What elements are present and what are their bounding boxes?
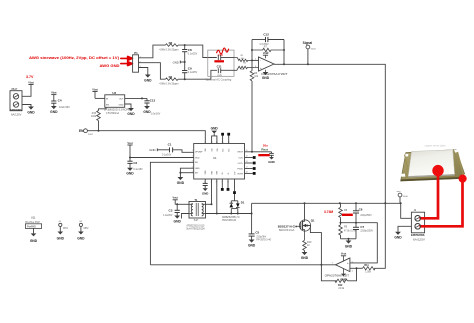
- wire U1 SW1 pin down: [211, 179, 213, 204]
- svg-text:3.7V: 3.7V: [26, 75, 34, 79]
- svg-text:MH1: MH1: [63, 228, 69, 230]
- junction: [216, 213, 218, 215]
- junction: [179, 172, 181, 174]
- svg-text:O-: O-: [228, 172, 230, 175]
- junction: [129, 157, 131, 159]
- wire divider mid rail: [341, 222, 378, 224]
- svg-text:C5: C5: [255, 231, 259, 235]
- junction: [141, 97, 143, 99]
- red scribble over C10: [217, 48, 229, 54]
- capacitor Cext (REXT): [268, 152, 274, 164]
- wire T1 left-bottom stub: [182, 214, 190, 219]
- svg-text:EN: EN: [106, 105, 109, 107]
- svg-text:C13: C13: [150, 99, 156, 103]
- terminal OUT- (square): [245, 156, 256, 159]
- svg-text:100k: 100k: [91, 116, 97, 118]
- ground port (C8/C9 mid): [173, 60, 185, 64]
- svg-text:5040: 5040: [403, 196, 409, 198]
- wire HV node corner up: [251, 203, 253, 213]
- junction: [251, 151, 253, 153]
- capacitor C11: [217, 64, 234, 77]
- capacitor C8: [182, 45, 197, 62]
- wire U3B plus to divider mid: [350, 223, 377, 263]
- svg-text:MMBZ5265B-7-F: MMBZ5265B-7-F: [222, 217, 240, 219]
- svg-text:VDD: VDD: [195, 157, 200, 159]
- capacitor C4: [51, 99, 70, 109]
- junction: [184, 61, 186, 63]
- transistor Q1 BSS127: [278, 203, 315, 240]
- capacitor C9: [182, 62, 197, 79]
- svg-text:600V/21mA: 600V/21mA: [279, 229, 295, 232]
- junction: [283, 49, 285, 51]
- module U11 (shield): [25, 216, 42, 243]
- power flag Vbat (C4): [51, 92, 57, 102]
- svg-text:3: 3: [255, 66, 256, 68]
- capacitor C10 (removed, red markup): [216, 53, 234, 63]
- ground (battery): [27, 107, 35, 115]
- wire minus input: [252, 59, 259, 61]
- wire REXT pin: [245, 151, 272, 153]
- mounting hole MH1: [57, 221, 69, 240]
- svg-text:0.1u/16V: 0.1u/16V: [162, 155, 172, 157]
- svg-text:Q1: Q1: [311, 218, 315, 222]
- svg-text:C2: C2: [133, 161, 137, 165]
- terminal HV (square) to D1: [233, 179, 236, 201]
- svg-text:PVDD: PVDD: [237, 168, 243, 170]
- svg-text:1.0u/16V: 1.0u/16V: [151, 113, 161, 116]
- svg-text:OUT+: OUT+: [238, 163, 244, 165]
- svg-text:ED555/2DS: ED555/2DS: [11, 108, 22, 112]
- svg-text:220p/3kV: 220p/3kV: [256, 236, 266, 238]
- svg-text:R11: R11: [364, 264, 369, 267]
- resistor R10: [303, 240, 312, 252]
- junction: [307, 63, 309, 65]
- svg-text:C8: C8: [188, 48, 192, 52]
- svg-text:20x: 20x: [263, 143, 268, 147]
- no-connect terminal (top pin 5): [227, 133, 230, 144]
- svg-text:C4: C4: [58, 99, 62, 103]
- wire U1 SW2 pin down: [216, 179, 218, 214]
- svg-text:C3: C3: [169, 209, 173, 213]
- svg-text:PwrPAD: PwrPAD: [27, 225, 36, 228]
- junction: [211, 203, 213, 205]
- svg-text:copper sense plate: copper sense plate: [425, 144, 447, 147]
- junction: [237, 213, 239, 215]
- svg-text:5uH: 5uH: [194, 219, 199, 222]
- svg-text:REXT: REXT: [238, 152, 244, 154]
- op-amp U3B OPA2376: [325, 258, 353, 278]
- wire HV node: [206, 213, 252, 215]
- ground (U1 GND/INT): [177, 177, 185, 185]
- svg-text:GND: GND: [173, 60, 179, 64]
- svg-text:-: -: [260, 59, 261, 63]
- junction: [339, 202, 341, 204]
- test point EN: [79, 129, 94, 136]
- svg-text:6A/125V: 6A/125V: [11, 113, 22, 116]
- svg-text:GND: GND: [195, 168, 200, 170]
- junction: [304, 202, 306, 204]
- svg-text:U11: U11: [31, 216, 36, 219]
- connector P1 AWG input: [133, 51, 142, 72]
- ground (divider): [345, 239, 353, 249]
- wire node to J2 pin1: [401, 203, 412, 218]
- svg-text:5002: 5002: [311, 48, 317, 50]
- capacitor C2: [127, 161, 143, 171]
- ground (U2): [127, 108, 135, 116]
- power flag Vout (T1): [173, 197, 179, 205]
- wire EN net to U1: [87, 131, 205, 144]
- resistor R11: [363, 264, 376, 273]
- svg-text:10uF/16V: 10uF/16V: [59, 106, 70, 109]
- svg-text:GND: GND: [268, 160, 274, 164]
- svg-text:5uH ATB322515A: 5uH ATB322515A: [186, 228, 205, 231]
- ground (C2): [126, 168, 134, 176]
- resistor R2: [234, 63, 259, 71]
- svg-text:C12: C12: [263, 33, 269, 37]
- feedback rail left: [251, 40, 253, 71]
- connector J2 pin rings over red wire: [415, 216, 421, 230]
- svg-text:D1: D1: [241, 201, 245, 205]
- wire R11 to HV node riser: [374, 203, 385, 268]
- svg-text:4.99k 0.1% 25ppm: 4.99k 0.1% 25ppm: [159, 49, 178, 51]
- wire T1 to SW1: [206, 203, 212, 205]
- svg-text:C11: C11: [217, 64, 222, 68]
- svg-text:C1: C1: [168, 143, 172, 147]
- junction: [348, 238, 350, 240]
- svg-text:+: +: [260, 66, 262, 70]
- junction: [251, 213, 253, 215]
- junction: [98, 130, 100, 132]
- red strike over R8 value: [342, 214, 353, 216]
- svg-text:+: +: [347, 261, 349, 265]
- svg-text:4.99k 0.1% 25ppm: 4.99k 0.1% 25ppm: [159, 83, 178, 85]
- svg-text:5002: 5002: [88, 134, 94, 136]
- ground (C13): [143, 106, 151, 114]
- junction: [283, 63, 285, 65]
- svg-text:C6: C6: [359, 208, 363, 212]
- wire main HV line: [252, 202, 401, 204]
- capacitor C5: [249, 214, 272, 242]
- svg-text:R12: R12: [338, 284, 343, 287]
- ground (C5): [248, 240, 256, 248]
- svg-text:2200p/250V: 2200p/250V: [360, 231, 373, 233]
- svg-text:VSS: VSS: [205, 170, 207, 175]
- svg-text:15: 15: [204, 142, 206, 144]
- ground (R10): [301, 252, 309, 260]
- sensor plate photo (bracket): [401, 150, 467, 181]
- wire U2 OUT to C13: [125, 97, 147, 99]
- wire U3B minus: [350, 267, 363, 269]
- svg-text:47.5k 0.1%: 47.5k 0.1%: [344, 230, 356, 232]
- terminal OUT+ (square): [245, 162, 256, 165]
- ground (J2): [394, 232, 402, 240]
- junction: [355, 202, 357, 204]
- svg-text:GND: GND: [149, 148, 155, 152]
- junction: [251, 49, 253, 51]
- junction: [230, 213, 232, 215]
- wire divider bottom rail: [341, 238, 357, 240]
- junction: [355, 222, 357, 224]
- svg-text:24.9k: 24.9k: [338, 288, 345, 290]
- svg-text:GND: GND: [202, 192, 208, 196]
- terminal OUT- bottom (square): [227, 179, 230, 191]
- wire Vout to T1: [175, 203, 189, 205]
- connector J2 terminal block: [411, 209, 426, 241]
- power flag Vbat (LDO input): [92, 88, 98, 98]
- solder dot A on plate: [432, 165, 443, 176]
- power flag Vout (C2/VDD): [127, 142, 133, 161]
- svg-text:HVST: HVST: [238, 173, 244, 175]
- feedback rail right: [283, 40, 285, 65]
- red wire A (plate to J2 pin1): [420, 171, 439, 219]
- svg-text:C7: C7: [360, 225, 364, 229]
- wire U2 GND pin: [125, 104, 131, 108]
- capacitor C3: [163, 204, 180, 217]
- svg-text:2.2u: 2.2u: [217, 75, 222, 77]
- svg-text:GND: GND: [30, 239, 38, 243]
- svg-text:U1: U1: [213, 156, 217, 160]
- wire U1 INT pin: [180, 172, 193, 174]
- capacitor C13: [144, 98, 160, 115]
- junction: [184, 78, 186, 80]
- capacitor C1: [162, 143, 194, 157]
- connector J1 battery terminal VBAT: [10, 88, 22, 116]
- wire Q1 source to output node: [307, 226, 321, 265]
- no-connect terminal (top pin 4): [221, 133, 224, 144]
- test point Signal: [303, 41, 317, 65]
- wire U3B minus to R12: [348, 268, 357, 281]
- op-amp U3A OPA2376: [255, 57, 288, 76]
- svg-text:PP-3575-2-46: PP-3575-2-46: [256, 239, 271, 241]
- wire P1 pin2 to R4: [139, 63, 166, 79]
- svg-text:Signal: Signal: [303, 41, 313, 45]
- junction: [251, 59, 253, 61]
- mounting hole MH2: [77, 221, 89, 240]
- test point wire (plate): [397, 190, 409, 203]
- svg-text:0.1u/16V: 0.1u/16V: [133, 169, 143, 171]
- resistor R3: [159, 41, 178, 51]
- wire J1 pin2 to ground: [22, 105, 31, 107]
- annotation arrow 1: [121, 56, 133, 60]
- junction: [340, 222, 342, 224]
- sensor plate photo (plate): [408, 150, 455, 178]
- terminal PVDD (square): [245, 167, 256, 170]
- capacitor C6: [353, 203, 372, 222]
- svg-text:BSS127 N-CH: BSS127 N-CH: [278, 225, 297, 228]
- svg-text:7: 7: [332, 263, 333, 265]
- wire FB to feedback rail: [150, 162, 193, 264]
- svg-text:R15: R15: [92, 113, 97, 115]
- svg-text:MH2: MH2: [84, 228, 90, 230]
- svg-text:0.1u/25V: 0.1u/25V: [188, 72, 198, 74]
- svg-text:6: 6: [352, 270, 353, 272]
- svg-text:OUT-: OUT-: [238, 157, 243, 159]
- wire R3 to AC box upper: [178, 45, 217, 57]
- svg-text:SW: SW: [217, 171, 219, 174]
- svg-text:2: 2: [192, 156, 193, 158]
- solder dot B on plate: [459, 175, 467, 183]
- diode D1 dual TVS: [222, 201, 245, 222]
- resistor R8 (value marked): [339, 203, 348, 222]
- svg-text:0.5V/500mA: 0.5V/500mA: [106, 112, 120, 115]
- terminal HVST (square): [245, 172, 256, 175]
- IC U1: [194, 144, 245, 180]
- svg-text:GND: GND: [211, 127, 219, 131]
- junction: [184, 44, 186, 46]
- svg-text:1: 1: [271, 62, 272, 64]
- ground (U1 top pins): [211, 127, 219, 144]
- regulator U2 LP38692: [104, 91, 130, 115]
- wire J1 pin1 to Vbat flag: [22, 95, 31, 97]
- svg-text:Rext: Rext: [261, 148, 268, 152]
- junction: [356, 267, 358, 269]
- resistor R1: [234, 55, 252, 62]
- svg-text:C9: C9: [188, 67, 192, 71]
- svg-text:350V/365mW: 350V/365mW: [222, 220, 237, 222]
- wire Vbat to U2 VIN: [95, 97, 105, 99]
- ground port (C1): [149, 148, 169, 152]
- svg-text:Optional AC Coupling: Optional AC Coupling: [206, 77, 232, 81]
- svg-text:GND: GND: [57, 236, 65, 240]
- wire P1 pin1 to R3: [139, 45, 166, 58]
- capacitor (U1 VSS pin): [202, 179, 208, 196]
- svg-text:1: 1: [192, 150, 193, 152]
- ground (C3): [174, 216, 182, 224]
- wire U3A output long: [274, 64, 385, 203]
- svg-text:GND: GND: [119, 105, 124, 107]
- resistor R12: [335, 279, 348, 290]
- power flag Vout (U3B V+): [341, 253, 347, 262]
- optional AC coupling box: [206, 50, 234, 81]
- terminal OUT+ bottom (square): [221, 179, 224, 191]
- ground (P1): [144, 75, 152, 83]
- wire P1 pin3 to ground: [139, 68, 148, 75]
- annotation arrow 2: [121, 62, 133, 66]
- svg-text:AWG GND: AWG GND: [100, 64, 121, 68]
- junction: [320, 264, 322, 266]
- svg-text:0.1u/25V: 0.1u/25V: [188, 54, 198, 56]
- junction: [176, 203, 178, 205]
- resistor R15 on EN: [91, 107, 106, 130]
- junction: [306, 225, 308, 227]
- wire U1 GND pin: [180, 168, 193, 177]
- power flag Vout (U3A V+): [263, 52, 269, 58]
- ground (U3A V-): [262, 70, 270, 80]
- resistor R4: [159, 75, 178, 85]
- svg-text:3.74M: 3.74M: [324, 210, 333, 214]
- wire U3B output to FB rail: [150, 264, 335, 266]
- capacitor C12: [252, 33, 284, 46]
- power flag Vbat (battery): [28, 81, 34, 96]
- junction: [400, 202, 402, 204]
- svg-text:ED555/2DS: ED555/2DS: [411, 233, 425, 237]
- svg-text:ATB322515-0110: ATB322515-0110: [186, 225, 205, 228]
- resistor R7: [252, 46, 284, 55]
- ground (U3B V-): [340, 268, 346, 281]
- wire VDD: [130, 157, 194, 159]
- red strike over Rext value: [258, 154, 269, 156]
- wire R12 to output: [321, 265, 337, 281]
- red wire B (plate to J2 pin2): [420, 179, 463, 227]
- svg-text:OUT: OUT: [119, 98, 124, 100]
- wire J2 pin2 to ground: [398, 226, 411, 232]
- resistor R9: [339, 223, 356, 239]
- svg-text:SW: SW: [211, 171, 213, 174]
- ground (C4): [50, 106, 58, 114]
- resistor R6: [250, 71, 259, 152]
- svg-text:1.0u/25V: 1.0u/25V: [163, 215, 173, 217]
- red strike over C10 value: [214, 60, 224, 62]
- svg-text:AWG sinewave (100Hz, 2Vpp, DC: AWG sinewave (100Hz, 2Vpp, DC offset = 1…: [29, 56, 119, 60]
- svg-text:220p/250V: 220p/250V: [360, 215, 372, 217]
- svg-text:VPUMP: VPUMP: [195, 152, 203, 154]
- capacitor C7: [353, 223, 373, 239]
- svg-text:GND: GND: [77, 236, 85, 240]
- svg-text:-: -: [348, 267, 349, 271]
- svg-text:1.00k: 1.00k: [365, 271, 372, 273]
- junction: [384, 202, 386, 204]
- transformer T1: [186, 198, 205, 230]
- wire R4 to AC box lower: [178, 70, 217, 79]
- svg-text:2: 2: [255, 59, 256, 61]
- svg-text:6A/125V: 6A/125V: [413, 238, 426, 241]
